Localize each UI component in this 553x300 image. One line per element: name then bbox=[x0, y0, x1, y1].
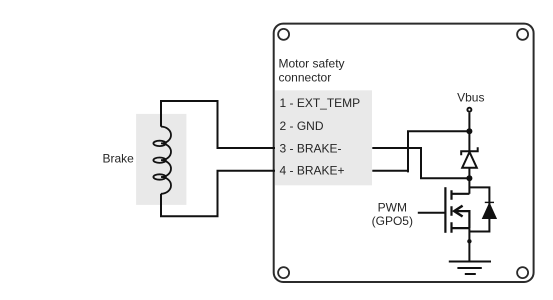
connector box outline (motor controller) bbox=[274, 24, 534, 282]
junction: Vbus / BRAKE+ node bbox=[466, 128, 472, 134]
drain lead bbox=[452, 193, 470, 195]
svg-text:4 - BRAKE+: 4 - BRAKE+ bbox=[280, 164, 345, 178]
junction: source/ground wire bbox=[467, 239, 471, 243]
ground bbox=[449, 262, 491, 275]
svg-text:Motor safety: Motor safety bbox=[279, 56, 345, 70]
svg-text:Brake: Brake bbox=[103, 151, 135, 165]
wire: pin 4 BRAKE+ to Vbus node bbox=[372, 131, 469, 172]
wire: coil top to pin 3 (BRAKE-) bbox=[161, 101, 275, 148]
connector pin list background bbox=[275, 90, 372, 185]
wire: body-diode branch (drain tap, right side, source tap) bbox=[469, 187, 489, 231]
mounting hole top-left bbox=[278, 29, 289, 40]
junction: drain / BRAKE- node bbox=[466, 175, 472, 181]
svg-text:1 - EXT_TEMP: 1 - EXT_TEMP bbox=[280, 96, 361, 110]
zener diode D1 bbox=[461, 147, 478, 168]
mounting hole bottom-right bbox=[517, 267, 528, 278]
svg-text:(GPO5): (GPO5) bbox=[372, 214, 413, 228]
wire: gate lead from PWM label bbox=[418, 212, 446, 214]
body diode D2 cathode bar bbox=[485, 201, 494, 203]
mounting hole top-right bbox=[517, 29, 528, 40]
svg-text:3 - BRAKE-: 3 - BRAKE- bbox=[280, 141, 342, 155]
brake coil highlight bbox=[136, 114, 186, 205]
arrow of MOSFET body contact bbox=[454, 206, 462, 217]
mounting hole bottom-left bbox=[278, 267, 289, 278]
body lead with arrow bbox=[455, 211, 469, 228]
svg-text:Vbus: Vbus bbox=[457, 91, 484, 105]
svg-text:PWM: PWM bbox=[378, 200, 407, 214]
wire: source down to ground bbox=[468, 228, 470, 261]
inductor L1 (brake coil) bbox=[153, 127, 171, 194]
svg-text:2 - GND: 2 - GND bbox=[280, 119, 324, 133]
source lead bbox=[452, 227, 470, 229]
body diode D2 (filled) bbox=[483, 203, 497, 218]
wire: coil bottom to pin 4 (BRAKE+) bbox=[161, 171, 275, 217]
channel segments bbox=[450, 190, 452, 233]
wire: zener anode down to MOSFET drain lead bbox=[468, 168, 470, 194]
svg-text:connector: connector bbox=[279, 70, 332, 84]
transistor Q1 (N-channel MOSFET) bbox=[445, 187, 469, 233]
wire: Vbus terminal down to zener cathode bbox=[468, 113, 470, 152]
node: Vbus terminal bbox=[467, 108, 471, 112]
wire: pin 3 BRAKE- to drain node bbox=[372, 148, 469, 178]
gate plate bbox=[444, 187, 446, 233]
